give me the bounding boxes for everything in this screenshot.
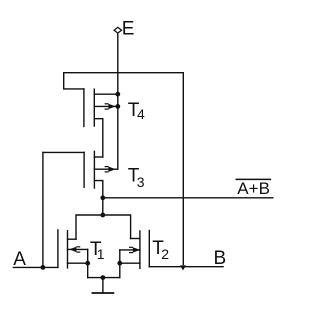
svg-text:4: 4 [137, 106, 145, 122]
svg-text:B: B [214, 248, 227, 269]
svg-text:1: 1 [97, 246, 105, 262]
svg-text:A+B: A+B [237, 179, 270, 198]
svg-text:2: 2 [161, 246, 169, 262]
svg-text:A: A [13, 249, 26, 270]
svg-text:3: 3 [137, 174, 145, 190]
svg-text:E: E [122, 18, 135, 39]
